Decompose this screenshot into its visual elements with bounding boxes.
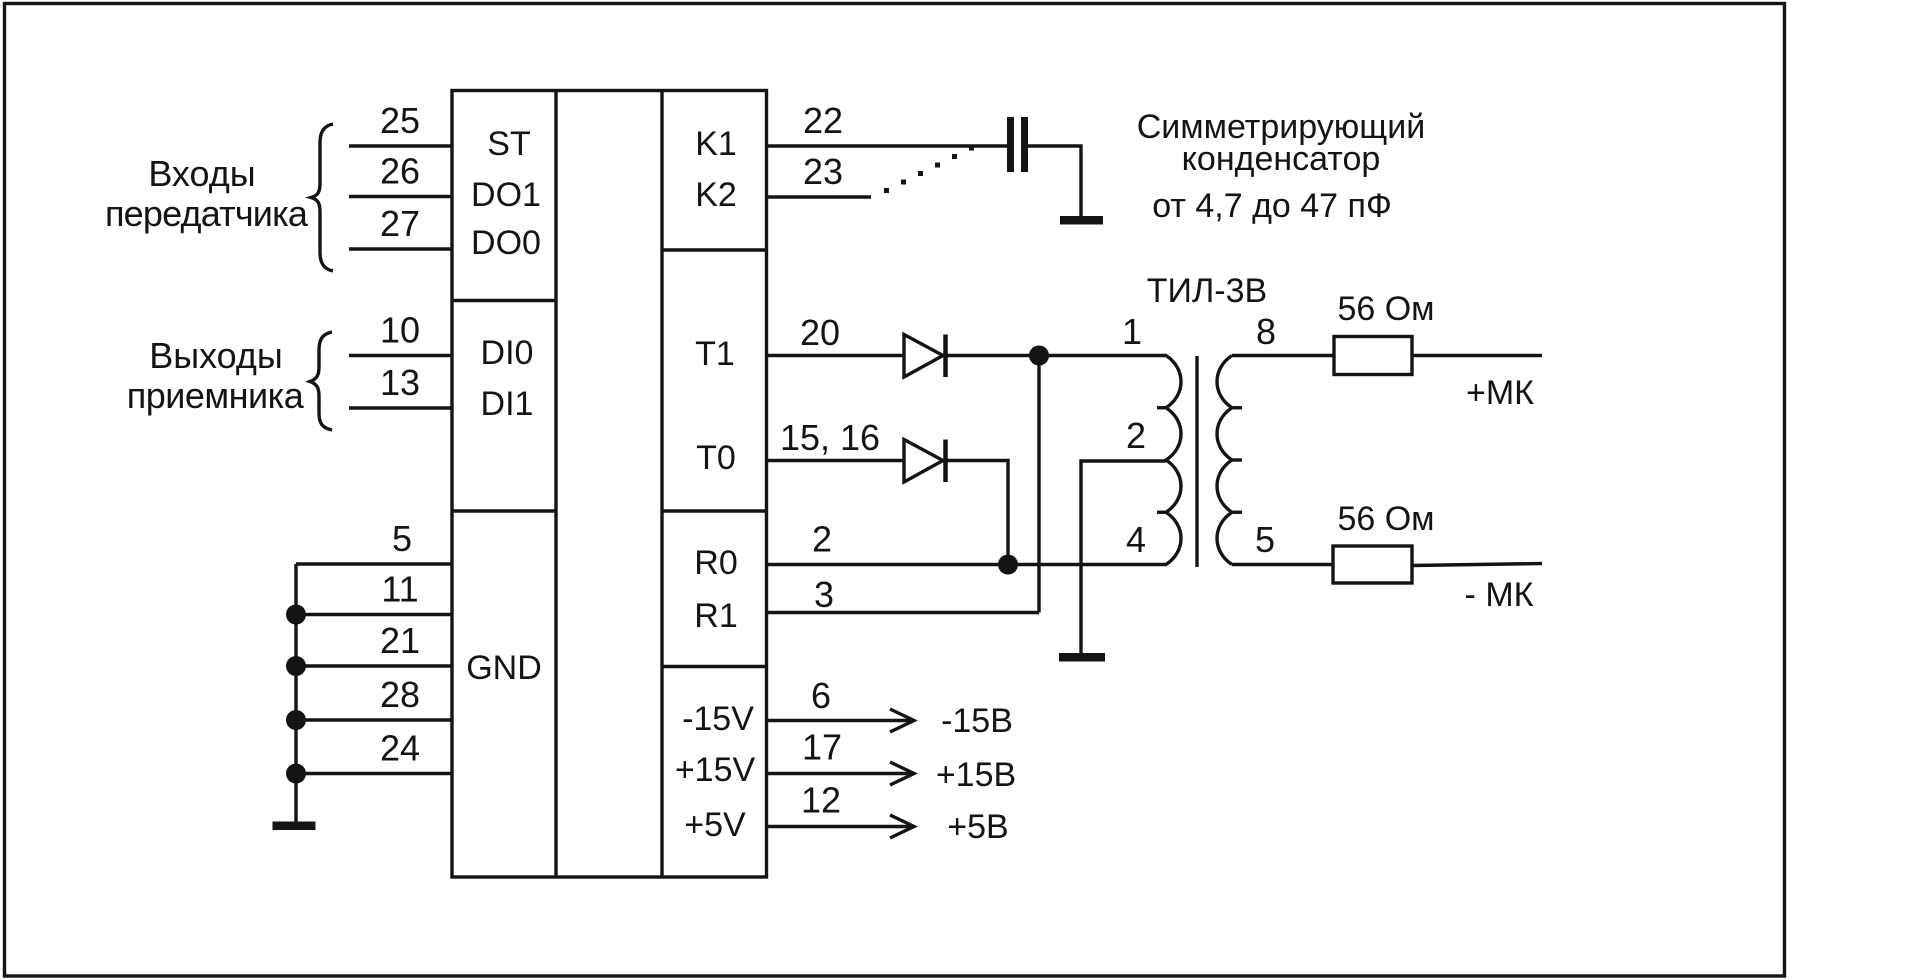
- wire transformer pin 5 to resistor: [1232, 563, 1333, 566]
- wire pin 12: [767, 825, 915, 828]
- svg-text:6: 6: [811, 675, 831, 716]
- svg-text:Выходы: Выходы: [149, 335, 283, 376]
- wire diode VD2 down to R0 net: [945, 461, 1008, 565]
- arrow -15V: [890, 709, 914, 732]
- IC block U1 outline: [452, 91, 767, 878]
- svg-text:приемника: приемника: [127, 375, 305, 416]
- wire pin 3 / R1: [767, 611, 1040, 614]
- svg-text:ST: ST: [487, 125, 530, 163]
- svg-text:8: 8: [1256, 311, 1276, 352]
- svg-text:передатчика: передатчика: [105, 193, 309, 234]
- svg-text:27: 27: [380, 203, 420, 244]
- svg-text:20: 20: [800, 312, 840, 353]
- junction dot bus pin 11: [286, 605, 306, 625]
- svg-text:+5В: +5В: [947, 808, 1008, 846]
- wire resistor to -MK: [1412, 564, 1542, 566]
- wire pin 15,16 / T0: [767, 459, 905, 462]
- resistor R2 56 Om body: [1333, 546, 1412, 583]
- transformer T1 primary winding: [1166, 356, 1181, 565]
- svg-text:2: 2: [812, 519, 832, 560]
- svg-text:26: 26: [380, 151, 420, 192]
- transformer notch tick primary upper: [1157, 406, 1166, 409]
- svg-text:17: 17: [802, 727, 842, 768]
- wire pin 2 / R0 to transformer pin 4: [767, 563, 1168, 566]
- svg-text:R1: R1: [694, 597, 737, 635]
- wire transformer pin 2 tap to ground: [1081, 461, 1166, 654]
- arrow +5V: [890, 815, 914, 838]
- capacitor C1 right plate: [1021, 117, 1028, 172]
- junction dot node A: [1029, 346, 1049, 366]
- IC divider R/power: [662, 665, 767, 668]
- wire transformer pin 8 to resistor: [1232, 354, 1334, 357]
- svg-text:-15V: -15V: [682, 700, 754, 738]
- svg-text:DO0: DO0: [471, 224, 541, 262]
- junction dot bus pin 28: [286, 710, 306, 730]
- svg-text:5: 5: [392, 518, 412, 559]
- wire pin 20 / T1: [767, 354, 905, 357]
- diode VD2: [904, 440, 943, 483]
- svg-text:DO1: DO1: [471, 176, 541, 214]
- svg-text:1: 1: [1122, 311, 1142, 352]
- svg-text:10: 10: [380, 310, 420, 351]
- svg-text:-15В: -15В: [941, 702, 1013, 740]
- transformer notch tick secondary 1: [1232, 406, 1242, 409]
- ground symbol transformer tap: [1059, 653, 1105, 662]
- svg-text:21: 21: [380, 620, 420, 661]
- junction dot R0 net: [998, 555, 1018, 575]
- transformer notch tick secondary 2: [1232, 458, 1242, 461]
- svg-text:от 4,7 до 47 пФ: от 4,7 до 47 пФ: [1152, 187, 1392, 225]
- svg-text:4: 4: [1126, 519, 1146, 560]
- svg-text:13: 13: [380, 362, 420, 403]
- svg-text:24: 24: [380, 728, 420, 769]
- transformer T1 secondary winding: [1217, 356, 1232, 565]
- dotted link K2 to capacitor node: [884, 188, 889, 193]
- diode VD1 cathode bar: [943, 335, 948, 378]
- wire node A vertical T1-R1: [1037, 356, 1040, 613]
- svg-text:K2: K2: [695, 176, 737, 214]
- diode VD2 cathode bar: [943, 440, 948, 483]
- svg-text:DI0: DI0: [481, 334, 534, 372]
- svg-text:Входы: Входы: [148, 153, 255, 194]
- wire pin 5: [296, 562, 452, 565]
- svg-text:56 Ом: 56 Ом: [1337, 500, 1434, 538]
- IC divider T/R: [662, 509, 767, 512]
- wire pin 23: [767, 195, 872, 198]
- svg-text:2: 2: [1126, 415, 1146, 456]
- wire pin 13: [349, 406, 452, 409]
- junction dot bus pin 24: [286, 764, 306, 784]
- svg-text:+15В: +15В: [936, 756, 1016, 794]
- IC divider DO/DI: [452, 299, 556, 302]
- IC divider K/T: [662, 248, 767, 251]
- svg-text:5: 5: [1255, 519, 1275, 560]
- IC divider DI/GND: [452, 509, 556, 512]
- wire pin 21: [296, 664, 452, 667]
- svg-text:T0: T0: [696, 439, 736, 477]
- svg-text:3: 3: [814, 574, 834, 615]
- svg-text:R0: R0: [694, 544, 737, 582]
- ground bus wire: [294, 564, 297, 822]
- brace transmitter inputs: [311, 124, 333, 271]
- svg-text:- МК: - МК: [1465, 576, 1534, 614]
- capacitor C1 left plate: [1007, 117, 1014, 172]
- wire diode VD1 to transformer pin 1: [945, 354, 1167, 357]
- wire pin 17: [767, 772, 915, 775]
- svg-text:22: 22: [803, 100, 843, 141]
- svg-text:DI1: DI1: [481, 385, 534, 423]
- svg-text:GND: GND: [466, 649, 542, 687]
- wire pin 11: [296, 613, 452, 616]
- wire pin 25: [349, 144, 452, 147]
- svg-text:+МК: +МК: [1466, 374, 1534, 412]
- IC inner vertical line right: [660, 91, 663, 878]
- svg-text:56 Ом: 56 Ом: [1337, 290, 1434, 328]
- transformer notch tick secondary 3: [1232, 511, 1242, 514]
- svg-text:T1: T1: [695, 335, 735, 373]
- transformer core: [1195, 356, 1198, 567]
- wire pin 6: [767, 719, 915, 722]
- svg-text:15, 16: 15, 16: [780, 417, 880, 458]
- junction dot bus pin 21: [286, 656, 306, 676]
- svg-text:+15V: +15V: [675, 751, 756, 789]
- svg-text:конденсатор: конденсатор: [1182, 140, 1381, 178]
- svg-text:11: 11: [381, 569, 418, 610]
- resistor R1 56 Om body: [1334, 337, 1412, 375]
- IC inner vertical line left: [554, 91, 557, 878]
- wire resistor to +MK: [1412, 354, 1542, 357]
- wire capacitor to ground: [1028, 146, 1081, 217]
- wire pin 10: [349, 354, 452, 357]
- svg-text:K1: K1: [695, 125, 737, 163]
- wire pin 26: [349, 195, 452, 198]
- wire pin 22: [767, 144, 1008, 147]
- wire pin 24: [296, 772, 452, 775]
- brace receiver outputs: [310, 332, 332, 430]
- ground symbol bus: [273, 822, 316, 831]
- arrow +15V: [890, 762, 914, 785]
- svg-text:23: 23: [803, 151, 843, 192]
- svg-text:+5V: +5V: [684, 806, 746, 844]
- wire pin 27: [349, 247, 452, 250]
- svg-text:25: 25: [380, 100, 420, 141]
- wire pin 28: [296, 718, 452, 721]
- diode VD1: [904, 335, 943, 378]
- ground symbol capacitor: [1060, 216, 1103, 225]
- transformer notch tick primary lower: [1157, 511, 1166, 514]
- svg-text:ТИЛ-3В: ТИЛ-3В: [1147, 272, 1267, 310]
- svg-text:12: 12: [801, 780, 841, 821]
- svg-text:28: 28: [380, 674, 420, 715]
